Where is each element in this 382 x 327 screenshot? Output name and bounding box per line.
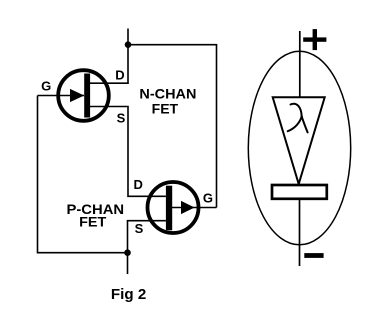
svg-text:FET: FET bbox=[152, 100, 179, 116]
svg-text:S: S bbox=[117, 110, 126, 125]
svg-text:FET: FET bbox=[79, 213, 107, 229]
svg-text:G: G bbox=[41, 78, 51, 93]
svg-text:D: D bbox=[134, 177, 143, 192]
svg-text:D: D bbox=[115, 68, 124, 83]
svg-text:N-CHAN: N-CHAN bbox=[139, 86, 196, 102]
svg-text:G: G bbox=[203, 191, 213, 206]
svg-text:Fig 2: Fig 2 bbox=[111, 286, 146, 303]
svg-text:S: S bbox=[135, 221, 144, 236]
